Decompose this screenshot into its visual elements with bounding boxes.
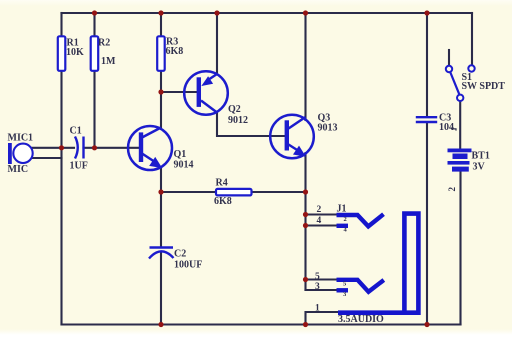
resistor R2 bbox=[91, 36, 116, 71]
node jack pin4 bbox=[303, 223, 308, 228]
node mic / R1 bbox=[59, 145, 64, 150]
capacitor C2 bbox=[149, 248, 202, 271]
svg-text:3: 3 bbox=[315, 282, 320, 292]
wire Q1 emitter down to C2 bbox=[160, 167, 162, 247]
svg-text:100UF: 100UF bbox=[174, 260, 202, 271]
wire jack pin2 stub bbox=[306, 213, 339, 215]
wire left rail lower (R1 to ground) bbox=[60, 71, 62, 325]
wire mic bottom lead bbox=[32, 157, 62, 159]
transistor Q2 bbox=[184, 71, 248, 126]
svg-text:104: 104 bbox=[439, 122, 454, 133]
svg-text:BT1: BT1 bbox=[472, 151, 490, 162]
wire left rail upper (to R1) bbox=[60, 13, 62, 37]
svg-text:SW SPDT: SW SPDT bbox=[462, 81, 506, 92]
wire Q3 collector stub bbox=[304, 13, 306, 120]
svg-text:R4: R4 bbox=[216, 178, 228, 189]
node R4 / Q3 emitter bbox=[303, 189, 308, 194]
svg-text:2: 2 bbox=[317, 205, 322, 215]
svg-text:3V: 3V bbox=[473, 162, 486, 173]
wire top rail bbox=[62, 12, 473, 14]
node top rail / Q2 emitter bbox=[214, 10, 219, 15]
wire jack pin3 stub bbox=[306, 289, 339, 291]
node top rail / R2 bbox=[92, 10, 97, 15]
switch S1 bbox=[446, 65, 505, 101]
svg-text:MIC1: MIC1 bbox=[8, 133, 34, 144]
svg-text:C1: C1 bbox=[70, 126, 82, 137]
wire jack pin1 stub bbox=[306, 312, 341, 325]
wire jack pin5 stub bbox=[306, 278, 339, 280]
wire C2 to ground bbox=[160, 253, 162, 325]
wire Q3 emitter down to jack pins bbox=[304, 153, 306, 290]
wire bottom rail bbox=[62, 323, 461, 325]
svg-text:9012: 9012 bbox=[228, 115, 248, 126]
wire mic top lead bbox=[32, 147, 74, 149]
wire C1 to Q1 base bbox=[84, 147, 140, 149]
node ground rail / C2 bbox=[158, 322, 163, 327]
wire R2 top lead bbox=[93, 13, 95, 37]
audio jack J1 bbox=[315, 204, 418, 326]
svg-text:Q2: Q2 bbox=[228, 104, 241, 115]
transistor Q1 bbox=[128, 126, 194, 170]
svg-text:1UF: 1UF bbox=[70, 161, 88, 172]
node top rail / Q3 collector bbox=[303, 10, 308, 15]
resistor R1 bbox=[58, 36, 84, 71]
wire S1 open throw stub bbox=[448, 50, 450, 66]
capacitor C1 bbox=[70, 126, 88, 172]
wire battery branch lower bbox=[459, 172, 461, 325]
node R3 / Q2 base / Q1 collector bbox=[158, 89, 163, 94]
svg-text:2: 2 bbox=[447, 187, 457, 192]
wire R4 right lead bbox=[252, 191, 306, 193]
node jack pin2 bbox=[303, 212, 308, 217]
svg-text:C2: C2 bbox=[174, 249, 186, 260]
svg-text:2: 2 bbox=[344, 216, 347, 223]
battery BT1 bbox=[447, 149, 490, 192]
svg-text:MIC: MIC bbox=[8, 164, 29, 175]
wire Q2 collector to Q3 base bbox=[217, 112, 285, 136]
wire R3 top lead bbox=[160, 13, 162, 37]
wire C3 top lead bbox=[426, 13, 428, 116]
svg-text:6K8: 6K8 bbox=[214, 196, 232, 207]
svg-text:5: 5 bbox=[315, 272, 320, 282]
svg-text:J1: J1 bbox=[337, 204, 347, 215]
wire R3 bottom lead / Q1 collector bbox=[160, 71, 162, 129]
svg-text:R2: R2 bbox=[98, 38, 110, 49]
node C1 / R2 bbox=[92, 145, 97, 150]
svg-text:1: 1 bbox=[315, 304, 320, 314]
node ground rail / C3 bbox=[424, 322, 429, 327]
svg-text:1M: 1M bbox=[101, 56, 116, 67]
wire R4 left lead bbox=[161, 191, 216, 193]
resistor R3 bbox=[157, 36, 183, 71]
node ground rail / jack pin1 bbox=[303, 322, 308, 327]
svg-text:6K8: 6K8 bbox=[166, 46, 184, 57]
capacitor C3 bbox=[416, 113, 456, 134]
resistor R4 bbox=[214, 178, 252, 208]
microphone MIC1 bbox=[8, 133, 34, 176]
svg-text:10K: 10K bbox=[66, 47, 84, 58]
wire R2 bottom lead bbox=[93, 71, 95, 148]
wire jack pin4 stub bbox=[306, 224, 339, 226]
svg-text:4: 4 bbox=[317, 216, 322, 226]
wire Q2 base bbox=[161, 91, 197, 93]
svg-text:9014: 9014 bbox=[174, 159, 194, 170]
wire Q2 emitter stub bbox=[216, 13, 218, 75]
wire battery branch upper bbox=[459, 102, 461, 150]
node Q1 emitter / R4 / C2 bbox=[158, 189, 163, 194]
node top rail / C3 bbox=[424, 10, 429, 15]
node jack pin5 bbox=[303, 277, 308, 282]
wire C3 bottom lead bbox=[426, 123, 428, 324]
svg-text:3.5AUDIO: 3.5AUDIO bbox=[338, 314, 384, 325]
svg-text:9013: 9013 bbox=[318, 122, 338, 133]
transistor Q3 bbox=[270, 113, 337, 159]
wire right drop to switch bbox=[471, 13, 473, 65]
node top rail / R3 bbox=[158, 10, 163, 15]
